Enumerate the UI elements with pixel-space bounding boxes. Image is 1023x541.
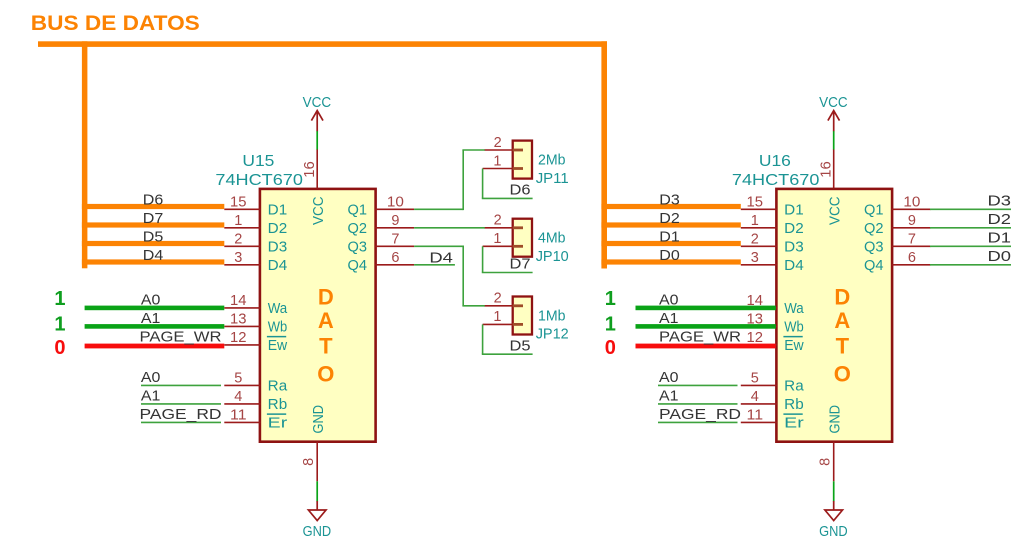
svg-text:D4: D4	[143, 247, 164, 264]
U16 pin 8 (GND) vertical line and number	[818, 442, 834, 482]
svg-text:Q2: Q2	[348, 220, 368, 237]
svg-text:PAGE_WR: PAGE_WR	[140, 329, 222, 346]
svg-text:D1: D1	[988, 230, 1012, 247]
svg-text:D4: D4	[268, 257, 288, 274]
svg-text:9: 9	[391, 213, 399, 229]
svg-text:BUS DE DATOS: BUS DE DATOS	[31, 12, 200, 35]
U16 pin 13 (Wb) line+number+name	[741, 312, 804, 336]
svg-text:4: 4	[234, 389, 242, 405]
svg-text:Wa: Wa	[784, 300, 804, 317]
JP12 pin 2 stub	[513, 304, 523, 307]
svg-text:10: 10	[387, 194, 404, 210]
svg-text:O: O	[317, 361, 334, 386]
U16 pin 6 (Q4) line+number+name	[864, 250, 931, 274]
svg-text:Q4: Q4	[864, 257, 884, 274]
svg-text:JP10: JP10	[536, 248, 569, 265]
svg-text:D3: D3	[988, 193, 1012, 210]
U16 pin 12 (Ew) line+number+name	[741, 330, 804, 354]
JP10 pin 1 stub	[513, 245, 523, 248]
svg-text:Wb: Wb	[784, 319, 804, 336]
wire PAGE_RD to U15	[141, 421, 221, 423]
U15 pin 3 (D4) line+number+name	[224, 250, 287, 274]
bus entry wire D7 to U15 D2	[82, 222, 224, 227]
U16 pin 10 (Q1) line+number+name	[864, 194, 931, 218]
svg-text:D3: D3	[268, 239, 288, 256]
svg-text:U16: U16	[759, 153, 791, 170]
bus wire horizontal (data bus)	[38, 41, 607, 47]
svg-text:Q3: Q3	[864, 239, 884, 256]
U15 pin 8 (GND) vertical line and number	[301, 442, 317, 482]
svg-text:D2: D2	[988, 211, 1012, 228]
bus entry wire D4 to U15 D4	[82, 259, 224, 264]
JP12 pin 2 line	[484, 305, 512, 307]
svg-text:12: 12	[230, 330, 247, 346]
U15 pin 12 (Ew) line+number+name	[224, 330, 287, 354]
svg-text:2: 2	[751, 231, 759, 247]
svg-text:Er: Er	[268, 415, 288, 432]
svg-text:D3: D3	[784, 239, 804, 256]
wire U16 Q4 output to net D0	[930, 264, 1011, 266]
svg-text:D6: D6	[143, 192, 164, 209]
svg-text:13: 13	[230, 312, 247, 328]
svg-text:2: 2	[234, 231, 242, 247]
U16 pin 2 (D3) line+number+name	[741, 231, 804, 255]
svg-text:3: 3	[751, 250, 759, 266]
svg-text:VCC: VCC	[819, 94, 848, 111]
bus entry wire D0 to U16 D4	[601, 259, 740, 264]
wire JP10 pin 1 to net label D7	[482, 246, 533, 272]
svg-text:5: 5	[234, 371, 242, 387]
wire PAGE_WR (logic low) to U15	[85, 344, 225, 349]
U15 pin 10 (Q1) line+number+name	[348, 194, 415, 218]
power VCC symbol U15	[303, 94, 332, 131]
svg-text:1: 1	[493, 153, 501, 169]
U15 pin 9 (Q2) line+number+name	[348, 213, 415, 237]
U15 pin 14 (Wa) line+number+name	[224, 293, 287, 317]
bus wire vertical right branch	[601, 41, 607, 268]
connector JP11 body	[513, 141, 532, 179]
svg-text:Q2: Q2	[864, 220, 884, 237]
svg-text:Wa: Wa	[268, 300, 288, 317]
svg-text:9: 9	[908, 213, 916, 229]
svg-text:PAGE_RD: PAGE_RD	[659, 406, 741, 423]
connector JP10 body	[513, 219, 532, 257]
U16 DATO text	[834, 285, 851, 387]
svg-text:4Mb: 4Mb	[538, 230, 566, 247]
ground symbol U16	[819, 501, 848, 540]
svg-text:Q1: Q1	[864, 202, 884, 219]
svg-text:Ra: Ra	[268, 378, 288, 395]
svg-text:15: 15	[230, 194, 247, 210]
svg-text:D0: D0	[988, 248, 1012, 265]
svg-text:Q3: Q3	[348, 239, 368, 256]
JP11 pin 2 stub	[513, 149, 523, 152]
svg-text:Wb: Wb	[268, 319, 288, 336]
svg-text:PAGE_RD: PAGE_RD	[140, 406, 222, 423]
bus entry wire D6 to U15 D1	[82, 204, 224, 209]
wire PAGE_WR (logic low) to U16	[636, 344, 776, 349]
ground symbol U15	[303, 501, 332, 540]
svg-text:D4: D4	[429, 250, 453, 267]
JP11 pin 1 stub	[513, 167, 523, 170]
wire A1 (logic high) to U16	[636, 324, 776, 329]
svg-text:2: 2	[494, 213, 502, 229]
svg-text:4: 4	[751, 389, 759, 405]
svg-text:D7: D7	[143, 210, 164, 227]
JP11 pin 1 line	[483, 168, 513, 170]
svg-text:T: T	[319, 333, 333, 358]
wire A0 to U16 read address	[658, 384, 738, 386]
svg-text:GND: GND	[826, 405, 843, 434]
svg-text:Rb: Rb	[268, 396, 288, 413]
wire U16 Q1 output to net D3	[930, 208, 1011, 210]
svg-text:A: A	[318, 308, 334, 333]
svg-text:7: 7	[908, 231, 916, 247]
svg-text:T: T	[836, 333, 850, 358]
svg-text:D1: D1	[784, 202, 804, 219]
svg-text:Ew: Ew	[268, 337, 288, 354]
svg-text:A0: A0	[659, 292, 679, 309]
svg-text:1: 1	[54, 288, 65, 310]
svg-text:A0: A0	[141, 369, 161, 386]
svg-text:1: 1	[234, 213, 242, 229]
JP12 pin 1 line	[483, 323, 513, 325]
svg-text:D0: D0	[659, 247, 680, 264]
svg-text:1Mb: 1Mb	[538, 307, 566, 324]
JP10 pin 2 line	[484, 227, 512, 229]
svg-text:Er: Er	[784, 415, 804, 432]
svg-text:16: 16	[302, 161, 318, 178]
U16 pin 1 (D2) line+number+name	[741, 213, 804, 237]
svg-text:1: 1	[54, 313, 65, 335]
svg-text:0: 0	[605, 337, 616, 359]
svg-text:A1: A1	[141, 310, 161, 327]
wire JP12 pin 1 to net label D5	[482, 324, 533, 354]
power VCC symbol U16	[819, 94, 848, 131]
IC U16 74HCT670 body	[776, 189, 892, 442]
U15 DATO text	[317, 285, 334, 387]
svg-text:10: 10	[903, 194, 920, 210]
svg-text:2: 2	[494, 291, 502, 307]
IC U15 74HCT670 body	[260, 189, 376, 442]
U16 pin 5 (Ra) line+number+name	[741, 371, 805, 395]
svg-text:A1: A1	[141, 388, 161, 405]
svg-text:A0: A0	[659, 369, 679, 386]
svg-text:D2: D2	[659, 210, 680, 227]
JP10 pin 1 line	[483, 245, 513, 247]
svg-text:0: 0	[54, 337, 65, 359]
wire A0 to U15 read address	[141, 384, 221, 386]
wire A1 to U15 read address	[141, 403, 221, 405]
svg-text:74HCT670: 74HCT670	[732, 172, 820, 189]
U16 pin 14 (Wa) line+number+name	[741, 293, 804, 317]
bus entry wire D5 to U15 D3	[82, 241, 224, 246]
svg-text:VCC: VCC	[303, 94, 332, 111]
wire VCC to U16 pin 16	[833, 131, 835, 150]
svg-text:6: 6	[908, 250, 916, 266]
JP12 pin 1 stub	[513, 323, 523, 326]
svg-text:2Mb: 2Mb	[538, 152, 566, 169]
svg-text:1: 1	[751, 213, 759, 229]
svg-text:A1: A1	[659, 388, 679, 405]
U15 pin 7 (Q3) line+number+name	[348, 231, 415, 255]
svg-text:8: 8	[818, 458, 834, 466]
svg-text:D: D	[318, 285, 334, 310]
svg-text:VCC: VCC	[310, 196, 327, 225]
svg-text:3: 3	[234, 250, 242, 266]
U16 pin 4 (Rb) line+number+name	[741, 389, 804, 413]
U15 pin 1 (D2) line+number+name	[224, 213, 287, 237]
U16 pin 7 (Q3) line+number+name	[864, 231, 931, 255]
U15 pin 5 (Ra) line+number+name	[224, 371, 288, 395]
wire U15 Q4 to net D4	[414, 264, 455, 266]
U16 pin 15 (D1) line+number+name	[741, 194, 804, 218]
svg-text:A0: A0	[141, 292, 161, 309]
svg-text:14: 14	[230, 293, 247, 309]
svg-text:74HCT670: 74HCT670	[215, 172, 303, 189]
svg-text:D2: D2	[268, 220, 288, 237]
U16 pin 16 (VCC) vertical line and number	[818, 149, 834, 189]
svg-text:Ra: Ra	[784, 378, 804, 395]
U15 pin 6 (Q4) line+number+name	[348, 250, 415, 274]
U15 pin 15 (D1) line+number+name	[224, 194, 287, 218]
U15 pin 13 (Wb) line+number+name	[224, 312, 287, 336]
svg-text:D6: D6	[510, 182, 531, 199]
svg-text:Ew: Ew	[784, 337, 804, 354]
wire U16 Q3 output to net D1	[930, 245, 1011, 247]
svg-text:Q4: Q4	[348, 257, 368, 274]
svg-text:16: 16	[818, 161, 834, 178]
wire U15 Q3 to JP12 pin 2	[414, 246, 485, 306]
svg-text:D5: D5	[510, 337, 531, 354]
wire A1 to U16 read address	[658, 403, 738, 405]
U16 pin 3 (D4) line+number+name	[741, 250, 804, 274]
svg-text:GND: GND	[303, 523, 332, 540]
bus entry wire D1 to U16 D3	[601, 241, 740, 246]
svg-text:A: A	[834, 308, 850, 333]
svg-text:D3: D3	[659, 192, 680, 209]
svg-text:5: 5	[751, 371, 759, 387]
svg-text:11: 11	[230, 408, 247, 424]
wire GND to U15 pin 8	[316, 481, 318, 501]
svg-text:1: 1	[605, 313, 616, 335]
svg-text:6: 6	[391, 250, 399, 266]
JP10 pin 2 stub	[513, 226, 523, 229]
svg-text:11: 11	[747, 408, 764, 424]
svg-text:VCC: VCC	[826, 196, 843, 225]
svg-text:GND: GND	[819, 523, 848, 540]
svg-text:1: 1	[493, 231, 501, 247]
svg-text:JP12: JP12	[536, 326, 569, 343]
wire JP11 pin 1 to net label D6	[482, 169, 533, 199]
JP11 pin 2 line	[484, 149, 512, 151]
U15 pin 2 (D3) line+number+name	[224, 231, 287, 255]
svg-text:7: 7	[391, 231, 399, 247]
svg-text:1: 1	[493, 309, 501, 325]
svg-text:D5: D5	[143, 229, 164, 246]
svg-text:8: 8	[301, 458, 317, 466]
U15 pin 11 (Er) line+number+name	[224, 408, 287, 432]
wire PAGE_RD to U16	[658, 421, 738, 423]
svg-text:D: D	[834, 285, 850, 310]
wire A0 (logic high) to U16	[636, 306, 776, 311]
svg-text:D1: D1	[268, 202, 288, 219]
svg-text:1: 1	[605, 288, 616, 310]
svg-text:O: O	[834, 361, 851, 386]
wire U15 Q1 to JP11 pin 2	[414, 150, 485, 210]
wire GND to U16 pin 8	[833, 481, 835, 501]
svg-text:2: 2	[494, 135, 502, 151]
bus entry wire D2 to U16 D2	[601, 222, 740, 227]
svg-text:Q1: Q1	[348, 202, 368, 219]
wire A0 (logic high) to U15	[85, 306, 225, 311]
svg-text:15: 15	[747, 194, 764, 210]
svg-text:GND: GND	[310, 405, 327, 434]
svg-text:D1: D1	[659, 229, 680, 246]
svg-text:PAGE_WR: PAGE_WR	[659, 329, 741, 346]
svg-text:D2: D2	[784, 220, 804, 237]
U16 pin 11 (Er) line+number+name	[741, 408, 804, 432]
svg-text:A1: A1	[659, 310, 679, 327]
connector JP12 body	[513, 297, 532, 335]
svg-text:U15: U15	[242, 153, 274, 170]
U15 pin 4 (Rb) line+number+name	[224, 389, 287, 413]
svg-text:D7: D7	[510, 256, 531, 273]
wire A1 (logic high) to U15	[85, 324, 225, 329]
U16 pin 9 (Q2) line+number+name	[864, 213, 931, 237]
wire U15 Q2 to JP10 pin 2	[414, 227, 485, 229]
wire U16 Q2 output to net D2	[930, 227, 1011, 229]
svg-text:JP11: JP11	[536, 170, 569, 187]
wire VCC to U15 pin 16	[316, 131, 318, 150]
bus wire vertical left branch	[82, 41, 88, 268]
svg-text:Rb: Rb	[784, 396, 804, 413]
svg-text:D4: D4	[784, 257, 804, 274]
bus entry wire D3 to U16 D1	[601, 204, 740, 209]
U15 pin 16 (VCC) vertical line and number	[302, 149, 318, 189]
